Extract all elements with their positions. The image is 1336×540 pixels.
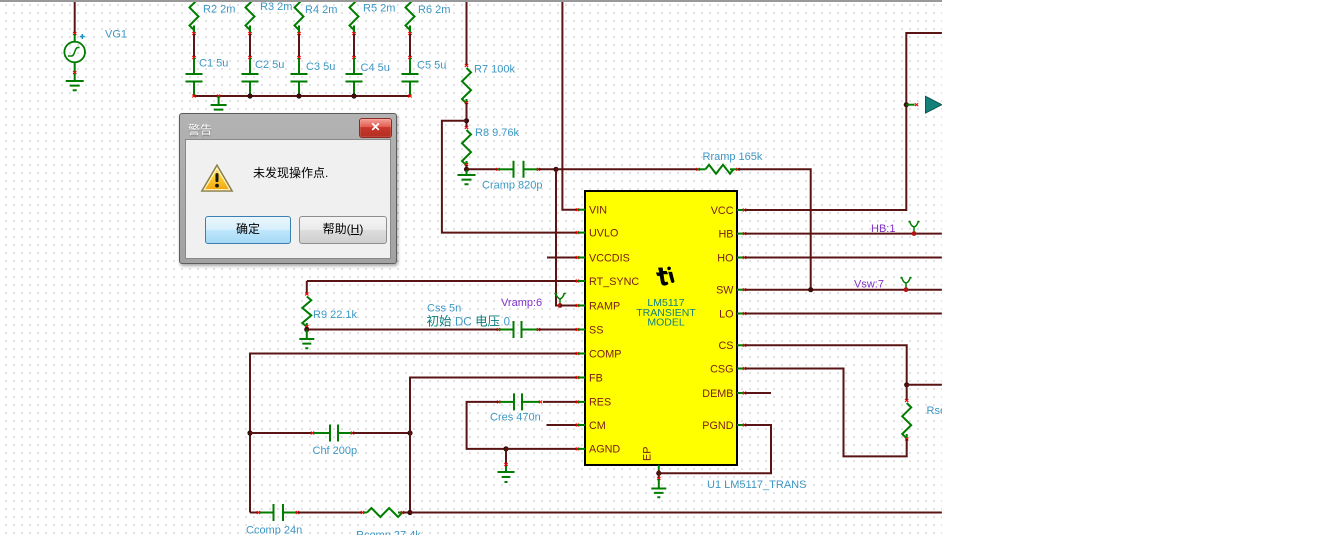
svg-text:LO: LO [719, 308, 733, 320]
wire R2 to C1 [193, 34, 195, 57]
pin RT_SYNC [578, 280, 585, 282]
pin COMP [578, 353, 585, 355]
capacitor C2 [248, 56, 251, 59]
pin SW [737, 289, 745, 291]
wire FB net [410, 378, 578, 513]
resistor Rramp [556, 168, 698, 170]
svg-text:CM: CM [589, 420, 606, 432]
svg-text:RT_SYNC: RT_SYNC [589, 276, 639, 288]
svg-text:C3 5u: C3 5u [306, 61, 335, 73]
svg-text:U1 LM5117_TRANS: U1 LM5117_TRANS [707, 479, 806, 491]
ground EP [658, 470, 660, 479]
wire HB net [745, 233, 942, 235]
pin HO [737, 257, 745, 259]
capacitor C4 [352, 56, 355, 59]
svg-text:HB:1: HB:1 [871, 223, 895, 235]
pin LO [737, 313, 745, 315]
wire Rcomp to FB junction [403, 512, 411, 514]
pin HB [737, 233, 745, 235]
svg-text:MODEL: MODEL [647, 317, 685, 329]
pin RES [578, 401, 585, 403]
wire Rramp to SW [738, 169, 811, 289]
svg-text:Vramp:6: Vramp:6 [501, 297, 542, 309]
pin SS [578, 329, 585, 331]
svg-text:FB: FB [589, 372, 603, 384]
resistor R3 [246, 0, 255, 30]
ground VG1 [74, 74, 76, 82]
svg-text:Cres 470n: Cres 470n [490, 412, 541, 424]
logo TI [655, 266, 675, 287]
button OK [205, 216, 291, 244]
wire HO net [745, 257, 942, 259]
svg-text:Rser 3m: Rser 3m [927, 405, 943, 417]
pin EP [658, 465, 660, 470]
wire R8 to Cramp node [466, 165, 468, 170]
node HB antenna [909, 221, 920, 234]
resistor R8 [465, 126, 468, 129]
pin CSG [737, 368, 745, 370]
svg-text:RAMP: RAMP [589, 300, 620, 312]
junction R9 SS [304, 327, 309, 332]
pin FB [578, 377, 585, 379]
wire R3 to C2 [249, 34, 251, 57]
svg-text:初始 DC 电压 0: 初始 DC 电压 0 [427, 315, 510, 329]
wire Css to SS pin [539, 329, 579, 331]
pin RAMP [578, 305, 585, 307]
resistor Rser [906, 385, 908, 400]
svg-text:PGND: PGND [702, 420, 733, 432]
wire DEMB stub [745, 392, 772, 394]
svg-text:R8 9.76k: R8 9.76k [475, 127, 520, 139]
capacitor Cramp [467, 168, 499, 170]
svg-text:HO: HO [717, 252, 733, 264]
node Vsw antenna [901, 277, 912, 290]
node Vramp antenna [555, 293, 566, 306]
wire LO net [745, 313, 942, 315]
svg-text:Cramp 820p: Cramp 820p [482, 180, 543, 192]
capacitor C1 [192, 56, 195, 59]
junction VCC output tap [904, 102, 909, 107]
svg-text:C5 5u: C5 5u [417, 60, 446, 72]
junction C4 bus [351, 93, 356, 98]
svg-text:C1 5u: C1 5u [199, 58, 228, 70]
pin DEMB [737, 392, 745, 394]
output arrow [926, 96, 942, 113]
junction Chf FB [407, 430, 412, 435]
svg-text:UVLO: UVLO [589, 227, 618, 239]
junction SW Rramp [808, 287, 813, 292]
svg-text:R7 100k: R7 100k [474, 64, 515, 76]
svg-text:VCCDIS: VCCDIS [589, 252, 630, 264]
junction AGND ground [503, 446, 508, 451]
svg-text:EP: EP [642, 447, 654, 461]
wire R7 top feed [466, 0, 468, 65]
wire Rser to CSG [745, 369, 907, 457]
pin CS [737, 344, 745, 346]
svg-text:SS: SS [589, 324, 603, 336]
resistor R2 [190, 0, 199, 30]
wire PGND return [659, 425, 771, 473]
pin UVLO [578, 232, 585, 234]
wire SW net [745, 289, 942, 291]
wire CS net [745, 345, 907, 385]
svg-text:HB: HB [719, 228, 734, 240]
resistor R9 [305, 293, 308, 296]
capacitor Cres [543, 401, 578, 403]
ground R9 [306, 330, 308, 340]
warning icon [200, 163, 234, 194]
svg-text:VCC: VCC [711, 205, 734, 217]
wire capacitor ground bus [194, 95, 410, 97]
capacitor Chf [250, 432, 312, 434]
ground R8 [466, 170, 468, 175]
wire Cramp to Rramp node [539, 168, 557, 170]
svg-text:Chf 200p: Chf 200p [313, 445, 358, 457]
resistor R4 [295, 0, 304, 30]
svg-text:VIN: VIN [589, 205, 607, 217]
wire R7 to R8 [466, 103, 468, 127]
wire VCC net [745, 33, 942, 210]
wire current sense out [907, 384, 942, 386]
capacitor Css [307, 329, 499, 331]
junction C2 bus [247, 93, 252, 98]
svg-text:R5 2m: R5 2m [363, 3, 395, 15]
junction R8 Cramp [464, 167, 469, 172]
voltage source VG1 [73, 32, 76, 35]
wire Chf to FB vertical [353, 432, 411, 434]
svg-text:SW: SW [716, 285, 734, 297]
svg-text:R2 2m: R2 2m [203, 4, 235, 16]
resistor R7 [465, 64, 468, 67]
capacitor C5 [408, 56, 411, 59]
op-amp U1 LM5117 body [585, 191, 737, 465]
svg-text:C2 5u: C2 5u [255, 59, 284, 71]
svg-text:CS: CS [719, 340, 734, 352]
wire VCCDIS stub [547, 257, 578, 259]
pin AGND [578, 448, 585, 450]
pin VCCDIS [578, 257, 585, 259]
wire AGND pin [506, 448, 578, 450]
wire output arrow stub [906, 104, 914, 106]
pin VCC [737, 209, 745, 211]
wire bottom feedback rail [410, 512, 942, 514]
junction RAMP net [553, 167, 558, 172]
svg-text:Rcomp 27.4k: Rcomp 27.4k [356, 530, 421, 536]
svg-text:R6 2m: R6 2m [418, 4, 450, 16]
svg-text:VG1: VG1 [105, 29, 127, 41]
wire CM stub [547, 424, 579, 426]
wire R6 to C5 [409, 34, 411, 57]
wire VG1 top feed [74, 0, 76, 34]
resistor R5 [350, 0, 359, 30]
svg-text:COMP: COMP [589, 348, 621, 360]
svg-text:DEMB: DEMB [702, 388, 733, 400]
junction C3 bus [296, 93, 301, 98]
svg-text:RES: RES [589, 397, 611, 409]
wire COMP net [250, 354, 578, 513]
junction R7 R8 UVLO [464, 118, 469, 123]
svg-text:Vsw:7: Vsw:7 [854, 279, 884, 291]
ground AGND [505, 449, 507, 466]
wire RT_SYNC net [307, 280, 578, 282]
junction FB bottom [407, 510, 412, 515]
svg-text:R9 22.1k: R9 22.1k [313, 309, 358, 321]
ground bus [218, 96, 220, 105]
dialog warning window [179, 113, 397, 264]
wire Cres to AGND [467, 402, 506, 449]
resistor Rcomp [298, 512, 363, 514]
svg-text:Ccomp 24n: Ccomp 24n [246, 525, 302, 536]
junction EP PGND [656, 471, 661, 476]
svg-text:R4 2m: R4 2m [305, 4, 337, 16]
junction CS Rser [904, 382, 909, 387]
wire VIN net [562, 0, 578, 210]
capacitor C3 [297, 56, 300, 59]
pin VIN [578, 209, 585, 211]
svg-text:R3 2m: R3 2m [260, 1, 292, 13]
wire RAMP net vertical [556, 169, 560, 305]
wire R4 to C3 [298, 34, 300, 57]
svg-text:Css 5n: Css 5n [427, 303, 461, 315]
svg-text:AGND: AGND [589, 444, 620, 456]
svg-text:CSG: CSG [710, 363, 733, 375]
junction COMP Chf [247, 430, 252, 435]
wire RAMP pin [560, 305, 578, 307]
capacitor Ccomp [250, 512, 258, 514]
pin CM [578, 424, 585, 426]
svg-text:Rramp 165k: Rramp 165k [703, 151, 763, 163]
resistor R6 [406, 0, 415, 30]
svg-text:C4 5u: C4 5u [361, 62, 390, 74]
wire UVLO net [442, 121, 578, 233]
button Help [299, 216, 387, 244]
wire R5 to C4 [353, 34, 355, 57]
pin PGND [737, 424, 745, 426]
